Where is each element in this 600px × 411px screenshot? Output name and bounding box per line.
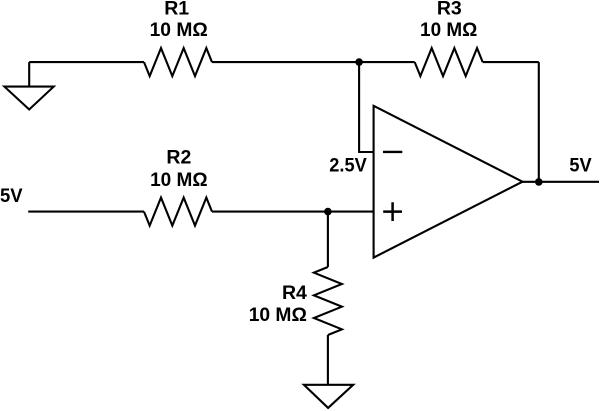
svg-text:R2: R2: [166, 147, 191, 169]
resistor R2: [144, 198, 212, 226]
resistor R3: [415, 48, 483, 76]
junction: top net to inverting branch: [355, 58, 363, 66]
op-amp U1 triangle: [374, 106, 523, 258]
svg-text:5V: 5V: [0, 185, 23, 207]
svg-text:R3: R3: [437, 0, 462, 20]
wire: left 5V input to R2 left lead: [28, 211, 144, 213]
junction: middle net to R4 branch: [324, 208, 332, 216]
svg-text:R1: R1: [164, 0, 189, 20]
wire: junction down to R4 top lead: [327, 212, 329, 267]
wire: op-amp output to right edge (output net): [523, 181, 600, 183]
wire: R4 bottom lead to ground: [327, 335, 329, 385]
ground GND2 (bottom): [304, 385, 353, 408]
ground GND1 (top-left): [4, 62, 53, 109]
svg-text:10 MΩ: 10 MΩ: [420, 19, 477, 41]
wire: junction down to inverting input stub: [359, 62, 374, 152]
svg-text:R4: R4: [282, 282, 307, 304]
svg-text:10 MΩ: 10 MΩ: [150, 19, 208, 41]
wire: ground corner to R1 left lead (top net): [29, 61, 144, 63]
wire: feedback drop to output node: [538, 62, 540, 182]
svg-text:5V: 5V: [569, 154, 591, 176]
resistor R1: [144, 48, 212, 76]
op-amp non-inverting pin (plus): [383, 202, 402, 221]
wire: R2 right lead to op-amp plus input: [212, 211, 375, 213]
resistor R4: [314, 267, 342, 335]
svg-text:2.5V: 2.5V: [329, 155, 367, 177]
junction: output node with feedback: [535, 178, 543, 186]
svg-text:10 MΩ: 10 MΩ: [150, 169, 208, 191]
wire: R1 right lead to R3 left lead (top net): [212, 61, 415, 63]
wire: R3 right lead to feedback corner: [483, 61, 539, 63]
svg-text:10 MΩ: 10 MΩ: [249, 304, 307, 326]
op-amp inverting pin (minus): [383, 151, 402, 153]
